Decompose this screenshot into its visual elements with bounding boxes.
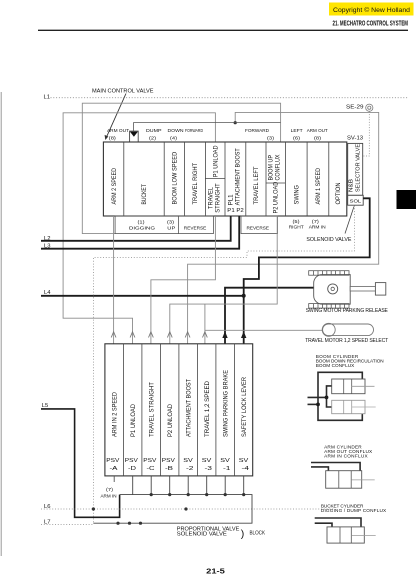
svg-text:Copyright © New Holland: Copyright © New Holland	[333, 6, 410, 14]
solenoid SOL box	[348, 195, 364, 205]
swing brake rod	[350, 286, 375, 291]
svg-text:(1): (1)	[138, 219, 145, 225]
svg-text:FORWARD: FORWARD	[245, 128, 269, 134]
svg-text:ARM IN 2 SPEED: ARM IN 2 SPEED	[112, 391, 118, 437]
dotted link SE-29 to N&B valve	[364, 112, 370, 157]
wire c6 travel 1-2 speed with branch to travel motor	[205, 304, 323, 344]
svg-text:RIGHT: RIGHT	[289, 225, 304, 231]
svg-text:(8): (8)	[314, 135, 321, 141]
top port labels	[107, 128, 328, 142]
svg-text:ARM IN: ARM IN	[101, 493, 117, 499]
svg-text:ATTACHMENT BOOST: ATTACHMENT BOOST	[186, 379, 192, 437]
boom piping loop	[318, 372, 362, 420]
label SOLENOID VALVE with leader	[306, 207, 354, 243]
heavy line L2 to P1 port	[41, 216, 231, 241]
junction dot on strip line	[234, 121, 237, 124]
boom cylinder 1	[332, 379, 375, 394]
label SE-29 with sensor circle	[346, 104, 373, 111]
svg-text:PSV: PSV	[143, 458, 157, 464]
svg-text:TRAVEL RIGHT: TRAVEL RIGHT	[193, 162, 199, 204]
bus junction dots	[116, 493, 245, 525]
bucket supply lower wire	[315, 523, 332, 527]
svg-text:REVERSE: REVERSE	[247, 226, 270, 232]
svg-text:SOLENOID VALVE: SOLENOID VALVE	[306, 237, 351, 243]
labels bucket cylinder group	[321, 504, 387, 514]
copyright badge	[329, 3, 414, 16]
svg-text:PSV: PSV	[106, 458, 120, 464]
junction dots on L6	[92, 507, 95, 510]
heavy wire SV-4 safety lock to SOL	[244, 198, 370, 343]
svg-text:TRAVEL MOTOR 1,2 SPEED SELECT: TRAVEL MOTOR 1,2 SPEED SELECT	[305, 338, 388, 344]
svg-text:DUMP: DUMP	[146, 128, 162, 134]
svg-text:(8): (8)	[109, 135, 116, 141]
pilot arrow box on valve top	[130, 131, 139, 142]
svg-text:-2: -2	[186, 466, 194, 472]
svg-text:P1 UNLOAD: P1 UNLOAD	[131, 403, 137, 437]
boom supply stub A	[308, 396, 327, 398]
block bottom labels PSV/SV	[106, 458, 249, 472]
svg-text:SWING: SWING	[294, 185, 300, 205]
label (7) ARM IN	[101, 487, 117, 500]
labels arm cylinder group	[324, 445, 373, 459]
boom cylinder 2	[332, 400, 376, 413]
svg-text:ARM OUT: ARM OUT	[107, 128, 129, 134]
left page edge line	[0, 92, 2, 556]
svg-text:ARM IN CONFLUX: ARM IN CONFLUX	[324, 454, 368, 459]
svg-text:-3: -3	[205, 466, 213, 472]
svg-text:): )	[241, 528, 245, 540]
svg-text:SV-13: SV-13	[347, 136, 363, 142]
dotted line L6	[41, 508, 335, 510]
svg-text:SWING PARKING BRAKE: SWING PARKING BRAKE	[223, 370, 229, 437]
svg-text:(2): (2)	[149, 135, 156, 141]
svg-text:MAIN CONTROL VALVE: MAIN CONTROL VALVE	[92, 88, 154, 94]
swing motor teeth top	[309, 271, 349, 276]
svg-text:DIGGING / DUMP CONFLUX: DIGGING / DUMP CONFLUX	[321, 508, 387, 513]
svg-text:ARM 1 SPEED: ARM 1 SPEED	[316, 167, 322, 204]
svg-text:ARM 2 SPEED: ARM 2 SPEED	[112, 167, 118, 204]
svg-text:BOOM CONFLUX: BOOM CONFLUX	[316, 363, 355, 368]
junction dot L4 / SV-4	[242, 294, 246, 298]
svg-text:-B: -B	[165, 466, 174, 472]
svg-text:SV: SV	[183, 458, 193, 464]
svg-text:P1 UNLOAD: P1 UNLOAD	[213, 145, 219, 177]
svg-text:L1: L1	[44, 94, 51, 100]
valve section BOOM UP CONFLUX	[269, 155, 282, 181]
swing motor teeth bottom	[309, 304, 349, 309]
block cell 1 bottom stub	[113, 476, 115, 482]
svg-text:LEFT: LEFT	[291, 128, 303, 134]
svg-text:UP: UP	[167, 226, 175, 232]
heavy line L5 down to block bus	[41, 409, 120, 517]
heavy wire SV-1 swing parking brake to swing motor	[225, 288, 329, 344]
svg-text:BUCKET: BUCKET	[142, 184, 148, 205]
labels boom cylinder group	[316, 354, 384, 368]
heavy line L3 to P2 port	[41, 216, 239, 249]
wire path B: valve P1 unload top around left side down to PSV-D	[63, 113, 215, 344]
svg-text:(7): (7)	[312, 219, 319, 225]
arm supply upper wire	[311, 463, 360, 471]
svg-text:P2 UNLOAD: P2 UNLOAD	[168, 403, 174, 437]
block bottom bus with stubs	[93, 476, 252, 523]
svg-text:ATTACHMENT BOOST: ATTACHMENT BOOST	[235, 148, 241, 205]
svg-text:(3): (3)	[267, 135, 274, 141]
arm supply lower wire	[311, 467, 328, 471]
svg-text:TRAVEL 1,2 SPEED: TRAVEL 1,2 SPEED	[205, 380, 211, 437]
black thumb tab	[397, 190, 416, 209]
heavy line L4	[41, 295, 244, 297]
header rule	[38, 29, 408, 31]
svg-text:FORWARD: FORWARD	[185, 128, 203, 134]
bucket supply upper wire	[315, 518, 361, 527]
bottom strip box 2 (reverse)	[241, 216, 278, 234]
valve section PL1 ATTACHMENT BOOST	[227, 148, 244, 214]
svg-text:PSV: PSV	[162, 458, 176, 464]
svg-text:(4): (4)	[170, 135, 177, 141]
wire c4 p2 unload from swing port	[170, 216, 277, 344]
swing motor body	[314, 275, 351, 305]
svg-text:N&B: N&B	[349, 179, 355, 192]
top label strip line with drop to pilot arrow box	[134, 123, 281, 132]
bottom strip box 1 (digging/up/reverse)	[115, 216, 213, 234]
valve section dividers	[124, 142, 329, 216]
svg-text:SV: SV	[239, 458, 249, 464]
svg-text:-1: -1	[223, 466, 231, 472]
N&B selector valve (SV-13)	[348, 143, 363, 195]
svg-text:OPTION: OPTION	[336, 183, 342, 205]
svg-text:P1 P2: P1 P2	[227, 208, 244, 214]
svg-text:PL1: PL1	[228, 194, 234, 206]
svg-text:SV: SV	[202, 458, 212, 464]
wire c1 arm in 2 speed	[113, 216, 115, 344]
svg-text:(3): (3)	[167, 219, 174, 225]
svg-text:-D: -D	[128, 466, 136, 472]
svg-text:STRAIGHT: STRAIGHT	[216, 183, 222, 213]
svg-text:TRAVEL: TRAVEL	[208, 186, 214, 209]
svg-text:DOWN: DOWN	[168, 128, 184, 134]
wire path A: valve boom-up column top around upper-left down to strip bottom	[82, 103, 280, 233]
swing brake piston box	[375, 283, 385, 296]
dotted line L1	[51, 97, 409, 99]
svg-text:DIGGING: DIGGING	[129, 226, 155, 232]
svg-text:BLOCK: BLOCK	[250, 531, 266, 537]
svg-text:SAFETY LOCK LEVER: SAFETY LOCK LEVER	[242, 376, 248, 437]
wire path B2: upper-right run down to attachment boost PSV (SV-2)	[188, 112, 379, 343]
svg-text:(6): (6)	[293, 135, 300, 141]
bottom labels (5) RIGHT (7) ARM IN	[289, 219, 326, 231]
svg-text:SE-29: SE-29	[346, 104, 364, 110]
svg-text:P2 UNLOAD: P2 UNLOAD	[274, 181, 280, 213]
svg-text:-C: -C	[147, 466, 155, 472]
svg-text:(5): (5)	[293, 219, 300, 225]
valve section TRAVEL STRAIGHT	[208, 183, 221, 213]
svg-text:TRAVEL STRAIGHT: TRAVEL STRAIGHT	[149, 382, 155, 437]
valve body	[103, 142, 346, 216]
svg-text:SWING MOTOR PARKING RELEASE: SWING MOTOR PARKING RELEASE	[306, 308, 389, 314]
svg-text:SOL: SOL	[350, 198, 362, 203]
svg-text:SV: SV	[220, 458, 230, 464]
svg-text:ARM IN: ARM IN	[309, 225, 326, 231]
svg-text:ARM OUT: ARM OUT	[307, 128, 328, 134]
svg-text:-4: -4	[242, 466, 250, 472]
leader arrow to valve	[105, 94, 126, 141]
junction dots boom	[325, 396, 329, 400]
bucket cylinder	[327, 527, 376, 543]
swing motor shaft circle	[328, 284, 338, 294]
dotted line L7	[41, 524, 93, 526]
svg-text:TRAVEL LEFT: TRAVEL LEFT	[254, 166, 260, 204]
boom inner branch to cylinder ports	[327, 386, 332, 407]
svg-text:(7): (7)	[106, 487, 113, 493]
arm cylinder	[326, 471, 375, 489]
svg-text:BOOM UP: BOOM UP	[269, 155, 275, 181]
svg-text:21-5: 21-5	[206, 566, 225, 575]
svg-text:PSV: PSV	[125, 458, 139, 464]
label PROPORTIONAL VALVE / SOLENOID VALVE } BLOCK	[177, 526, 266, 540]
svg-text:SOLENOID VALVE: SOLENOID VALVE	[177, 532, 228, 538]
svg-text:SELECTOR VALVE: SELECTOR VALVE	[355, 144, 361, 192]
svg-text:REVERSE: REVERSE	[184, 226, 207, 232]
svg-text:21. MECHATRO CONTROL SYSTEM: 21. MECHATRO CONTROL SYSTEM	[333, 21, 409, 28]
svg-text:CONFLUX: CONFLUX	[276, 155, 282, 181]
heavy flow arrows (cells 7-8)	[222, 331, 246, 338]
svg-text:-A: -A	[110, 466, 119, 472]
wire c3 travel straight	[151, 216, 216, 344]
travel motor pill	[322, 323, 373, 336]
boom supply stub B	[308, 403, 319, 405]
flow arrows into valve (light, cells 1-6)	[111, 332, 207, 338]
svg-text:BOOM LOW SPEED: BOOM LOW SPEED	[173, 151, 179, 204]
dotted boundary from SOL around block area	[93, 206, 354, 524]
